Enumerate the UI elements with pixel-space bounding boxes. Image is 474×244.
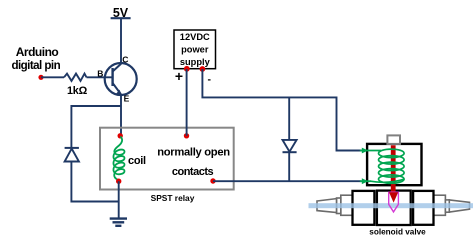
- svg-text:B: B: [97, 69, 103, 79]
- svg-text:digital pin: digital pin: [11, 59, 60, 72]
- wire resistor to base: [87, 76, 113, 78]
- power supply - terminal dot: [200, 66, 206, 72]
- relay coil terminal bottom dot: [116, 179, 121, 184]
- right pipe fitting: [434, 195, 470, 215]
- svg-text:+: +: [175, 68, 183, 84]
- wire diode D2 to contact line: [288, 153, 290, 181]
- relay coil terminal top dot: [118, 133, 123, 138]
- valve plunger seat outline (magenta): [389, 192, 399, 212]
- svg-text:SPST relay: SPST relay: [151, 193, 195, 203]
- svg-text:contacts: contacts: [172, 166, 214, 178]
- resistor R 1k zigzag: [64, 74, 87, 81]
- svg-text:coil: coil: [128, 155, 146, 167]
- wire - terminal to solenoid top: [202, 69, 361, 151]
- valve body left chamber: [353, 191, 375, 225]
- svg-text:power: power: [181, 45, 209, 55]
- ground symbol: [110, 219, 127, 226]
- power supply box 12VDC: [174, 30, 216, 69]
- solenoid coil box: [367, 144, 421, 185]
- solenoid terminal arrow top (green): [360, 148, 381, 154]
- svg-text:normally open: normally open: [157, 147, 230, 159]
- svg-text:supply: supply: [180, 57, 211, 67]
- relay contact terminal right dot: [210, 178, 215, 183]
- wire coil bottom to ground: [118, 181, 120, 218]
- valve body right chamber: [413, 191, 433, 225]
- svg-text:C: C: [122, 55, 128, 65]
- svg-text:solenoid valve: solenoid valve: [369, 228, 426, 237]
- left pipe fitting: [317, 195, 353, 215]
- node label Arduino digital pin: [11, 45, 60, 72]
- plunger arrow head (red): [389, 192, 398, 202]
- relay contact terminal top dot: [184, 133, 189, 138]
- svg-text:Arduino: Arduino: [16, 45, 59, 59]
- relay box SPST: [100, 128, 234, 190]
- power supply label: [180, 32, 211, 67]
- wire junction to flyback diode: [71, 106, 121, 148]
- water pipe (light blue band): [309, 203, 474, 208]
- solenoid valve drawing: [309, 135, 474, 236]
- svg-text:E: E: [124, 94, 130, 104]
- wire + terminal down to relay contact: [186, 69, 188, 136]
- solenoid plunger shaft (red): [391, 145, 396, 192]
- relay contacts label: [157, 147, 230, 178]
- wire diode D1 to ground line: [71, 162, 118, 202]
- wire branch to diode D2: [288, 97, 290, 140]
- diode D2 (cathode down): [283, 140, 297, 152]
- diode D1 flyback (cathode up): [65, 148, 79, 162]
- power supply + terminal dot: [184, 66, 190, 72]
- svg-text:-: -: [208, 74, 212, 86]
- wire relay contact to solenoid bottom: [213, 180, 362, 182]
- solenoid top tab: [387, 135, 400, 144]
- transistor Q1: [105, 63, 137, 95]
- wire pin to resistor: [41, 76, 64, 78]
- valve body middle chamber: [377, 191, 411, 225]
- power rail 5V bar: [111, 17, 131, 19]
- wire 5V to collector: [120, 18, 122, 63]
- node Arduino pin terminal dot: [38, 75, 43, 80]
- solenoid terminal arrow bottom (green): [360, 178, 371, 184]
- relay coil (green): [113, 137, 124, 181]
- svg-text:12VDC: 12VDC: [180, 32, 210, 42]
- svg-text:1kΩ: 1kΩ: [67, 85, 88, 97]
- wire emitter down to relay coil: [120, 95, 122, 135]
- solenoid coil winding (green): [371, 149, 405, 183]
